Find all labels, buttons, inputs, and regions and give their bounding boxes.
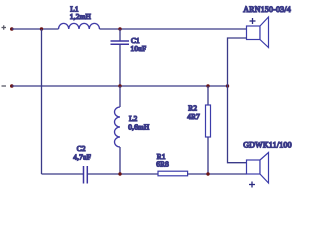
wire bottom rail right segment [188, 173, 247, 175]
speaker LS1 ARN150-03/4 [247, 17, 269, 48]
svg-text:0,6mH: 0,6mH [128, 123, 150, 132]
svg-text:ARN150-03/4: ARN150-03/4 [243, 5, 291, 14]
wire R2 upper lead [207, 86, 209, 105]
junction R2 bottom on bottom rail [206, 172, 209, 175]
svg-text:4R7: 4R7 [187, 112, 200, 121]
wire bottom rail middle segment [87, 173, 158, 175]
inductor L2 [115, 107, 121, 147]
wire minus rail [12, 85, 228, 87]
wire bottom rail left segment [42, 173, 84, 175]
junction L2 bottom on bottom rail [118, 172, 121, 175]
wire R2 lower lead [207, 137, 209, 174]
junction L2 top on minus rail [118, 84, 121, 87]
wire top rail right segment [100, 28, 247, 30]
wire speaker LS1 return lead [228, 38, 247, 86]
wire C1 lower lead [119, 44, 121, 86]
terminal + marker [2, 25, 7, 29]
svg-text:6R8: 6R8 [156, 160, 169, 169]
wire left branch vertical from node A to bottom rail [41, 29, 43, 174]
svg-text:1,2mH: 1,2mH [70, 12, 92, 21]
svg-text:C2: C2 [77, 144, 86, 153]
resistor R2 [206, 105, 211, 137]
terminal - dot [10, 84, 14, 88]
wire top rail left segment [12, 28, 59, 30]
junction speaker return on minus rail [226, 84, 229, 87]
junction C1 top [118, 27, 121, 30]
wire L2 upper lead [119, 86, 121, 107]
terminal + dot [10, 27, 14, 31]
speaker LS2 plus mark [249, 182, 255, 188]
wire L2 lower lead [119, 147, 121, 174]
capacitor C2 [84, 166, 88, 184]
speaker LS2 GDWK11/100 [247, 153, 269, 184]
terminal - marker [2, 85, 7, 87]
svg-text:GDWK11/100: GDWK11/100 [243, 140, 292, 149]
resistor R1 [158, 171, 188, 176]
speaker LS1 plus mark [250, 18, 256, 24]
inductor L1 [59, 23, 100, 29]
junction R2 top on minus rail [206, 84, 209, 87]
wire C1 upper lead [119, 29, 121, 41]
svg-text:10uF: 10uF [131, 44, 147, 53]
junction node A on top rail [40, 27, 43, 30]
svg-text:4,7uF: 4,7uF [73, 153, 91, 162]
wire tweeter-woofer return vertical [228, 86, 247, 163]
capacitor C1 [111, 41, 130, 44]
